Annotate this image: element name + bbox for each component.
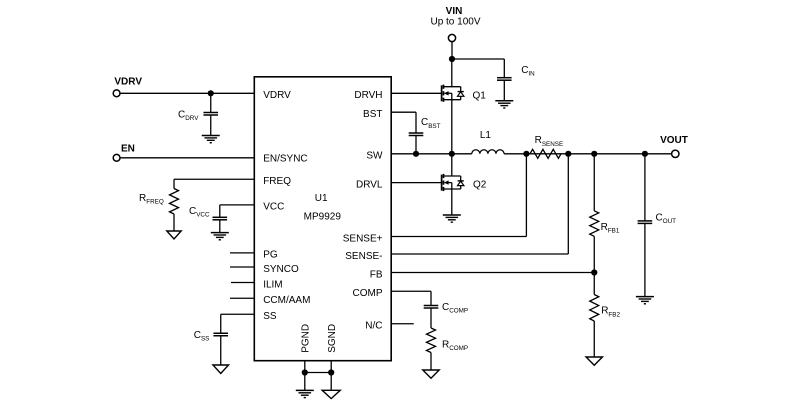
svg-text:RFB2: RFB2: [601, 306, 620, 319]
svg-text:ILIM: ILIM: [263, 279, 282, 290]
U1 pin label SS: [263, 311, 277, 322]
node SW at Q1/Q2: [449, 151, 455, 157]
node VDRV terminal: [113, 90, 120, 97]
node VOUT terminal: [672, 150, 679, 157]
wire SGND to ground: [330, 373, 332, 391]
wire VCC U1 to CVCC: [220, 205, 255, 217]
wire SYNCO stub: [230, 266, 254, 268]
node SW at L1/RSENSE: [523, 151, 529, 157]
svg-text:RCOMP: RCOMP: [442, 339, 468, 352]
wire FB U1 to divider node: [391, 272, 594, 274]
svg-text:SW: SW: [366, 151, 383, 162]
U1 pin label N/C: [365, 321, 382, 332]
capacitor COUT: [638, 221, 653, 297]
resistor RSENSE: [530, 149, 561, 158]
svg-text:L1: L1: [480, 130, 492, 141]
CIN value label: [521, 65, 535, 78]
svg-text:CIN: CIN: [521, 65, 535, 78]
U1 pin label SYNCO: [263, 264, 299, 275]
U1 pin label COMP: [353, 288, 383, 299]
wire SW node to Q2 drain: [451, 154, 453, 176]
wire BST U1 to CBST: [391, 112, 416, 133]
node VIN junction: [449, 56, 455, 62]
CDRV value label: [178, 109, 199, 122]
node EN terminal: [113, 154, 120, 161]
wire VDRV to U1: [120, 92, 254, 94]
ground (earth) below PGND: [296, 390, 314, 397]
VOUT label: [660, 135, 688, 146]
COUT value label: [656, 213, 677, 226]
svg-text:FREQ: FREQ: [263, 176, 291, 187]
svg-text:VDRV: VDRV: [263, 90, 291, 101]
svg-text:N/C: N/C: [365, 321, 382, 332]
resistor RFB2: [590, 273, 599, 358]
svg-text:MP9929: MP9929: [304, 212, 342, 223]
ground (earth) below CVCC: [211, 233, 229, 240]
RCOMP value label: [442, 339, 468, 352]
svg-text:COUT: COUT: [656, 213, 677, 226]
svg-text:SYNCO: SYNCO: [263, 264, 299, 275]
ground (triangle) below SGND: [322, 390, 340, 398]
RFB2 value label: [601, 306, 620, 319]
U1 pin label DRVL: [356, 179, 383, 190]
svg-text:SENSE-: SENSE-: [345, 251, 382, 262]
L1 label: [480, 130, 492, 141]
wire SS U1 to CSS: [221, 314, 255, 333]
svg-text:CCM/AAM: CCM/AAM: [263, 295, 310, 306]
svg-text:DRVL: DRVL: [356, 179, 383, 190]
VIN label: [446, 6, 463, 17]
ground (triangle) below CSS: [213, 365, 229, 374]
svg-text:PGND: PGND: [301, 324, 312, 353]
inductor L1: [472, 150, 504, 154]
wire SENSE+ U1 to RSENSE left: [391, 154, 526, 237]
wire Q1 source to SW node: [451, 100, 453, 154]
wire SENSE- U1 to RSENSE right: [391, 154, 568, 254]
ground (triangle) below RCOMP: [423, 370, 439, 378]
svg-text:COMP: COMP: [353, 288, 383, 299]
node COUT top tap: [642, 151, 648, 157]
node VIN terminal: [448, 34, 455, 41]
U1 pin label SW: [366, 151, 383, 162]
wire VIN node to Q1 drain: [451, 59, 453, 87]
resistor RFB1: [590, 154, 599, 273]
wire VIN terminal to VIN node: [451, 41, 453, 59]
CVCC value label: [189, 206, 210, 219]
svg-text:U1: U1: [315, 193, 328, 204]
U1 reference designator label: [315, 193, 328, 204]
node PGND junction: [302, 369, 308, 375]
node RSENSE right / SENSE- tap: [565, 151, 571, 157]
node RFB1 top tap: [591, 151, 597, 157]
wire N/C stub: [391, 323, 414, 325]
svg-text:VCC: VCC: [263, 202, 284, 213]
U1 pin label PG: [263, 250, 278, 261]
capacitor CIN: [497, 78, 512, 101]
U1 pin label FREQ: [263, 176, 291, 187]
wire VIN node to CIN: [452, 59, 504, 78]
wire COMP U1 to CCOMP: [391, 291, 431, 305]
svg-text:FB: FB: [370, 269, 383, 280]
CBST value label: [421, 117, 441, 130]
resistor RFREQ: [170, 189, 179, 232]
svg-text:Up to 100V: Up to 100V: [430, 16, 480, 27]
U1 pin label PGND (rotated): [301, 324, 312, 353]
CSS value label: [194, 330, 210, 343]
svg-text:VDRV: VDRV: [114, 77, 142, 88]
node SGND junction: [328, 369, 334, 375]
svg-text:SENSE+: SENSE+: [343, 233, 383, 244]
svg-text:PG: PG: [263, 250, 278, 261]
wire PGND-SGND link: [305, 372, 331, 374]
node SW at CBST: [413, 151, 419, 157]
ground (triangle) below RFREQ: [167, 231, 181, 239]
U1 pin label EN/SYNC: [263, 154, 307, 165]
svg-text:VIN: VIN: [446, 6, 463, 17]
svg-text:RSENSE: RSENSE: [535, 135, 564, 148]
ground (earth) below CDRV: [202, 136, 220, 143]
wire ILIM stub: [231, 282, 254, 284]
RFB1 value label: [601, 222, 620, 235]
wire PGND to ground: [304, 373, 306, 391]
svg-text:BST: BST: [363, 109, 382, 120]
U1 part number label MP9929: [304, 212, 342, 223]
wire DRVH U1 to Q1 gate: [391, 92, 441, 94]
node FB divider junction: [591, 269, 597, 275]
U1 pin label SENSE-: [345, 251, 382, 262]
RFREQ value label: [139, 193, 164, 206]
wire SGND U1 to node: [330, 361, 332, 373]
svg-text:CBST: CBST: [421, 117, 441, 130]
U1 pin label DRVH: [354, 90, 382, 101]
resistor RCOMP: [427, 328, 436, 370]
VIN rating label Up to 100V: [430, 16, 480, 27]
svg-text:Q1: Q1: [473, 91, 487, 102]
svg-text:RFB1: RFB1: [601, 222, 620, 235]
svg-text:CSS: CSS: [194, 330, 210, 343]
CCOMP value label: [442, 302, 468, 315]
wire FREQ U1 to RFREQ: [174, 179, 254, 188]
capacitor CBST: [409, 133, 424, 154]
capacitor CCOMP: [424, 306, 439, 329]
U1 pin label FB: [370, 269, 383, 280]
wire DRVL U1 to Q2 gate: [391, 182, 441, 184]
U1 pin label ILIM: [263, 279, 282, 290]
U1 pin label BST: [363, 109, 382, 120]
capacitor CDRV: [203, 93, 218, 135]
U1 pin label SGND (rotated): [327, 324, 338, 353]
wire Q2 source to ground: [451, 189, 453, 215]
svg-text:RFREQ: RFREQ: [139, 193, 164, 206]
U1 pin label VCC: [263, 202, 284, 213]
wire PG stub: [230, 252, 254, 254]
VDRV input label: [114, 77, 142, 88]
IC U1 MP9929 body: [254, 77, 391, 361]
ground (earth) at Q2 source: [443, 215, 461, 222]
transistor Q2: [442, 174, 464, 191]
Q2 label: [473, 180, 487, 191]
wire CCM/AAM stub: [230, 297, 254, 299]
svg-text:VOUT: VOUT: [660, 135, 688, 146]
wire PGND U1 to node: [304, 361, 306, 373]
Q1 label: [473, 91, 487, 102]
node VDRV junction at CDRV: [208, 90, 214, 96]
ground (earth) below CIN: [495, 101, 513, 108]
svg-text:EN: EN: [121, 143, 135, 154]
svg-text:DRVH: DRVH: [354, 90, 382, 101]
wire SW rail U1 to VOUT: [391, 153, 671, 155]
wire COUT top: [644, 154, 646, 221]
capacitor CSS: [213, 333, 228, 365]
RSENSE value label: [535, 135, 564, 148]
ground (triangle) below RFB2: [586, 357, 602, 365]
U1 pin label SENSE+: [343, 233, 383, 244]
U1 pin label VDRV: [263, 90, 291, 101]
EN input label: [121, 143, 135, 154]
transistor Q1: [442, 85, 464, 102]
capacitor CVCC: [213, 217, 228, 232]
svg-text:CDRV: CDRV: [178, 109, 199, 122]
U1 pin label CCM/AAM: [263, 295, 310, 306]
ground (earth) below COUT: [636, 297, 654, 304]
svg-text:Q2: Q2: [473, 180, 487, 191]
svg-text:CVCC: CVCC: [189, 206, 210, 219]
svg-text:SS: SS: [263, 311, 277, 322]
svg-text:EN/SYNC: EN/SYNC: [263, 154, 307, 165]
svg-text:CCOMP: CCOMP: [442, 302, 468, 315]
svg-text:SGND: SGND: [327, 324, 338, 353]
wire EN to U1: [120, 157, 254, 159]
